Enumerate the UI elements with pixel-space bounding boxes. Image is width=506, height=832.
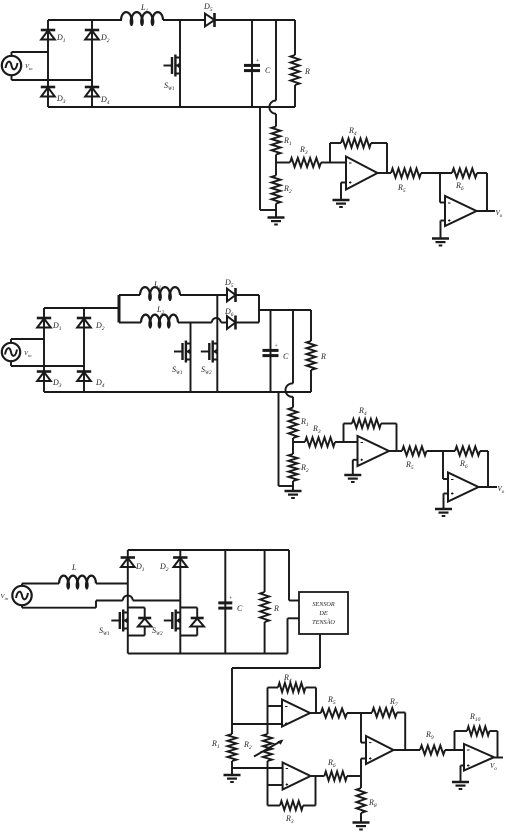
wire Vin bottom with hop bbox=[22, 596, 180, 608]
wire R4 to U5 output bbox=[315, 688, 317, 714]
MOSFET switch Sw2 (c2) bbox=[201, 295, 218, 392]
diode D2 (c3) bbox=[159, 558, 188, 574]
wire R4 to U3 output bbox=[396, 424, 398, 452]
wire summing node to U7 minus bbox=[361, 713, 366, 743]
wire R2 to ground (c2) bbox=[292, 481, 294, 491]
wire U5 output bbox=[310, 712, 321, 714]
wire minus bus upper bbox=[267, 688, 269, 735]
wire top rail (c3) bbox=[128, 549, 289, 551]
resistor R2 divider bbox=[272, 176, 292, 204]
wire return to divider ground (c2) bbox=[279, 392, 294, 486]
op-amp U8 bbox=[464, 744, 494, 771]
wire sense tap with hop (c2) bbox=[285, 310, 293, 408]
ground U2 bbox=[432, 239, 449, 246]
diode D6 (c2) bbox=[224, 307, 236, 330]
wire L to left leg bbox=[96, 583, 128, 585]
wire node A to U5 plus bbox=[232, 723, 282, 725]
wire sensor output bbox=[232, 634, 320, 724]
diode D2 bbox=[85, 30, 110, 44]
wire minus bus lower bbox=[267, 761, 269, 806]
svg-text:+: + bbox=[229, 596, 233, 602]
wire left leg (c3) bbox=[127, 550, 129, 654]
wire U4 minus input bbox=[443, 451, 448, 479]
svg-text:TENSÃO: TENSÃO bbox=[312, 618, 335, 626]
diode D5 (c2) bbox=[224, 278, 236, 302]
capacitor C (c3) bbox=[218, 550, 243, 654]
wire top rail bbox=[48, 19, 295, 21]
op-amp U2 bbox=[445, 196, 477, 226]
wire bridge left leg bbox=[47, 20, 49, 107]
wire node to R10 bbox=[455, 731, 468, 750]
wire R6 to U4 output bbox=[487, 451, 489, 487]
resistor R1 (c3) bbox=[211, 724, 237, 768]
resistor R load (c2) bbox=[307, 310, 327, 392]
AC source Vin (circuit 3) bbox=[1, 584, 32, 608]
resistor R4 feedback (c2) bbox=[344, 406, 397, 428]
wire U3 output bbox=[389, 450, 402, 452]
ground node A (c3) bbox=[224, 768, 241, 782]
resistor R2 divider (c2) bbox=[289, 454, 309, 481]
wire U4 plus to ground bbox=[444, 494, 449, 510]
MOSFET switch Sw1 (c2) bbox=[172, 323, 191, 393]
wire Vin top to bridge (c2) bbox=[11, 338, 44, 340]
resistor R7 feedback (c3) bbox=[372, 697, 405, 717]
wire R4 to U1 output bbox=[386, 143, 388, 173]
wire bridge right leg bbox=[91, 20, 93, 107]
svg-text:+: + bbox=[256, 59, 260, 65]
wire bridge right leg (c2) bbox=[83, 308, 85, 392]
diode D4 (c2) bbox=[77, 372, 105, 390]
ground divider (c2) bbox=[285, 491, 302, 498]
wire right leg (c3) bbox=[179, 550, 181, 654]
diode D3 bbox=[41, 87, 66, 105]
svg-text:R: R bbox=[273, 604, 279, 613]
resistor R4 feedback bbox=[330, 126, 387, 148]
wire U2 output Vo bbox=[477, 209, 503, 219]
svg-text:+: + bbox=[274, 344, 278, 350]
wire to sensor top bbox=[289, 550, 299, 601]
inductor L2 (c2) bbox=[119, 305, 227, 329]
wire R6 to U2 output bbox=[486, 173, 488, 211]
wire U6 output bbox=[311, 775, 325, 777]
AC source Vin (circuit 2) bbox=[2, 339, 32, 366]
wire bottom rail (c3) bbox=[128, 653, 288, 655]
diode D2 (c2) bbox=[77, 318, 105, 332]
capacitor C bbox=[244, 20, 271, 107]
resistor R4 feedback (c3) bbox=[268, 673, 317, 692]
svg-text:DE: DE bbox=[318, 610, 327, 617]
body diode Sw2 bbox=[180, 608, 204, 636]
wire cathode junction (c2) bbox=[236, 295, 260, 323]
op-amp U5 bbox=[268, 700, 311, 727]
wire U4 output Vo bbox=[479, 485, 505, 495]
wire bottom node (c3) bbox=[232, 767, 283, 769]
wire U2 minus input bbox=[440, 173, 445, 203]
resistor R6 feedback (c2) bbox=[455, 447, 488, 471]
resistor R1 divider (c2) bbox=[289, 408, 309, 439]
svg-text:L: L bbox=[71, 563, 77, 572]
wire interleave split bbox=[118, 295, 121, 323]
resistor R3 (c2) bbox=[293, 424, 344, 447]
wire op-amp U3 feedback left bbox=[343, 424, 345, 443]
op-amp U3 bbox=[344, 436, 390, 466]
wire op-amp U1 feedback left bbox=[329, 143, 331, 163]
body diode Sw1 bbox=[128, 608, 152, 636]
resistor R6 (c3) bbox=[324, 758, 361, 781]
wire U2 plus input to ground bbox=[441, 221, 446, 239]
resistor R10 feedback (c3) bbox=[467, 712, 498, 736]
svg-text:C: C bbox=[283, 352, 289, 361]
resistor R8 (c3) bbox=[357, 788, 377, 823]
wire U7 plus to R8 node bbox=[361, 759, 366, 789]
wire sensor lower to bottom rail bbox=[288, 618, 300, 653]
svg-text:R: R bbox=[320, 352, 326, 361]
wire divider junction (c2) bbox=[292, 438, 294, 454]
resistor R3 feedback (c3) bbox=[268, 801, 316, 825]
diode D4 bbox=[85, 87, 110, 106]
ground U3 bbox=[344, 475, 361, 482]
wire bottom rail (c2) bbox=[44, 391, 311, 393]
MOSFET switch Sw1 (c3) bbox=[99, 610, 128, 638]
diode D3 (c2) bbox=[37, 372, 62, 390]
resistor R1 divider bbox=[272, 127, 292, 155]
svg-text:C: C bbox=[265, 66, 271, 75]
resistor R3 bbox=[276, 145, 330, 167]
wire Vin top to inductor bbox=[22, 583, 59, 585]
ground U4 bbox=[435, 509, 452, 516]
wire R3 to U6 output bbox=[315, 776, 317, 806]
inductor L1 (c2) bbox=[119, 280, 227, 301]
resistor R6 feedback bbox=[452, 169, 487, 193]
resistor R load bbox=[291, 20, 311, 107]
resistor R5 (c2) bbox=[402, 447, 455, 472]
capacitor C (c2) bbox=[263, 310, 290, 392]
ground divider (circuit 1) bbox=[268, 218, 285, 225]
wire U1 plus input to ground bbox=[341, 183, 346, 201]
diode D1 (c3) bbox=[121, 558, 145, 574]
wire Vin bottom to bridge right midpoint bbox=[12, 79, 93, 81]
wire return to divider ground bbox=[260, 107, 276, 210]
wire R10 to U8 output bbox=[497, 731, 499, 758]
MOSFET switch Sw2 (c3) bbox=[152, 610, 180, 638]
inductor L1 bbox=[121, 3, 163, 26]
svg-text:R: R bbox=[304, 67, 310, 76]
wire sense tap with hop bbox=[269, 20, 276, 127]
diode D1 (c2) bbox=[37, 318, 62, 332]
ground R8 (c3) bbox=[353, 823, 370, 830]
op-amp U4 bbox=[448, 473, 479, 502]
resistor R9 (c3) bbox=[420, 730, 464, 755]
resistor R5 bbox=[391, 169, 452, 195]
svg-text:SENSOR: SENSOR bbox=[312, 601, 335, 608]
sensor box SENSOR DE TENSAO bbox=[299, 592, 348, 634]
svg-text:C: C bbox=[237, 604, 243, 613]
wire R7 to U7 output bbox=[404, 713, 406, 751]
wire divider junction bbox=[275, 155, 277, 176]
wire bottom rail bbox=[48, 106, 295, 108]
inductor L (c3) bbox=[59, 563, 96, 590]
wire R2 to ground bbox=[275, 204, 277, 218]
op-amp U6 bbox=[268, 763, 311, 790]
op-amp U1 bbox=[330, 157, 378, 190]
op-amp U7 bbox=[366, 736, 394, 764]
wire U8 output Vo bbox=[490, 758, 503, 773]
wire bridge top rail (c2) bbox=[44, 307, 119, 309]
wire U3 plus to ground bbox=[353, 460, 358, 475]
resistor R load (c3) bbox=[260, 550, 279, 654]
diode D5 boost bbox=[203, 2, 215, 27]
resistor R5 (c3) bbox=[321, 695, 372, 718]
wire Vin top to bridge left midpoint bbox=[12, 51, 49, 53]
wire output rail (c2) bbox=[259, 309, 311, 311]
ground U1 bbox=[333, 200, 350, 207]
wire U1 output bbox=[378, 172, 392, 174]
wire bridge left leg (c2) bbox=[43, 308, 45, 392]
AC source Vin (circuit 1) bbox=[2, 52, 33, 80]
MOSFET switch Sw1 bbox=[164, 20, 181, 107]
ground U8 bbox=[452, 782, 469, 789]
diode D1 bbox=[41, 30, 66, 44]
wire U8 plus to ground bbox=[461, 766, 465, 783]
potentiometer R2 (c3) bbox=[243, 734, 284, 761]
wire Vin bottom to bridge (c2) bbox=[11, 365, 84, 367]
wire U7 output bbox=[394, 749, 421, 751]
